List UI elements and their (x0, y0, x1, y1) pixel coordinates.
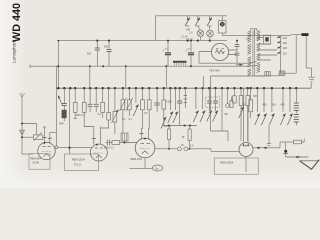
switch arrow x175.4 (173, 88, 178, 123)
tube V2 label box (65, 154, 99, 171)
switch arrow x163.5 (161, 117, 166, 129)
tube V2 grid stub right (100, 127, 102, 145)
ground symbol top right (308, 68, 315, 82)
capacitor C6 x157 (155, 88, 160, 112)
voltage selector box (263, 35, 270, 44)
barretter tube Ur (211, 43, 228, 60)
capacitor C5 x96 (94, 88, 99, 112)
power transformer T1 primary winding (248, 31, 251, 76)
resistor R2 x84 (82, 88, 94, 126)
wire V4 to output (253, 147, 280, 150)
scale lamp box (219, 16, 226, 36)
switch arrow x264 (261, 88, 266, 125)
transformer top leads (251, 29, 257, 31)
wire vline x210.5 (210, 76, 212, 88)
switch S2 in top box (195, 16, 200, 26)
dots on contact rail (168, 125, 191, 127)
svg-text:75 1,0: 75 1,0 (74, 163, 82, 167)
switch arrow x279 (280, 88, 285, 125)
switch arrow x170.5 (168, 88, 173, 123)
svg-text:450: 450 (253, 95, 258, 98)
svg-text:220: 220 (283, 36, 288, 40)
mains plug (302, 33, 309, 36)
selector pivot line (280, 37, 282, 74)
small rect x232 (230, 97, 233, 108)
barretter bypass caps (235, 40, 240, 64)
switch arrow x287 (287, 88, 292, 125)
wire y131 (211, 131, 229, 141)
wire vline x166 heater-bus (165, 66, 167, 88)
wire top rail y16 (156, 15, 228, 17)
wire chassis rail y40.6 (58, 40, 227, 42)
jack J2 (184, 147, 188, 151)
cap stack x297.5 (294, 115, 299, 126)
loudspeaker (300, 160, 320, 170)
wire y76 left (211, 75, 265, 77)
capacitor C9 x219.5 (213, 88, 218, 121)
field coil resistor (280, 139, 304, 144)
tube V3 grid stubs (140, 129, 149, 139)
earth tick bottom left (22, 153, 33, 155)
cap stack x292 (294, 88, 299, 113)
tube V1 REN904 (38, 142, 55, 160)
tube V2 REN1104 (90, 144, 107, 161)
svg-text:500: 500 (104, 46, 109, 49)
pickup jack circle (226, 88, 230, 107)
wire bus right end up (310, 83, 312, 89)
svg-text:450: 450 (272, 104, 277, 107)
switch arrow x244 (239, 107, 244, 119)
terminal circle right of tube1 (55, 146, 58, 149)
wire x222 bus to y131 (221, 88, 223, 131)
wire jacks to rectifier (188, 149, 239, 152)
resistor R6 x122.9 with arrow (120, 88, 127, 133)
heater terminal tick (29, 65, 31, 69)
spark gap triangle (20, 130, 25, 135)
wire riser x280 (279, 142, 281, 148)
wire speaker drop (285, 142, 287, 157)
dial lamp La1 (197, 26, 204, 41)
resistor x234.4 (233, 88, 237, 103)
antenna lead (21, 98, 23, 155)
junction dots on main bus (57, 87, 297, 89)
resistor R9 x149.2 (147, 88, 151, 128)
cord drop to primary (254, 29, 256, 36)
junction dots on heater rail (57, 65, 167, 67)
svg-text:RGN 1054: RGN 1054 (220, 160, 234, 164)
resistor R3 x102.7 (101, 88, 105, 118)
blocking cap C1 under rail x97 (87, 41, 100, 67)
wire to tube2 grid (58, 147, 92, 149)
wire mains to transformer (279, 72, 296, 74)
heater series cap x191 (188, 40, 194, 68)
trimmer swoosh right (186, 49, 191, 52)
svg-text:450: 450 (281, 104, 286, 107)
switch arrow x258 (255, 88, 260, 125)
svg-text:450: 450 (263, 104, 268, 107)
heater arrow (236, 64, 243, 66)
svg-text:5000 0,1: 5000 0,1 (104, 147, 114, 150)
potentiometer R5 x115 (112, 88, 119, 134)
blocking cap C2 under rail x109 (104, 41, 112, 67)
node antenna tap (22, 124, 37, 135)
tube V3 RES164 (135, 138, 155, 158)
jack J1 (178, 147, 182, 151)
antenna symbol (19, 93, 24, 98)
wire x211 bus to y131 (210, 88, 212, 131)
wire heater rail y66 (30, 65, 250, 67)
wire vline x69.5 (69, 88, 71, 154)
electrolytic C3 below bus x64 (58, 88, 67, 125)
switch arrow x272 (269, 88, 274, 125)
svg-text:Do: Do (155, 166, 159, 170)
tube V2 grid stub left (92, 127, 96, 145)
mains drop wire left (295, 35, 297, 73)
junction blob (284, 150, 287, 153)
wire to speaker (286, 156, 309, 158)
wire under V4 (245, 157, 247, 173)
tapped element x185 (184, 88, 187, 108)
capacitor C8 x213.5 (207, 88, 212, 121)
resistor R7 x129.3 with arrow (126, 88, 133, 116)
switch arrow x202.6 (200, 88, 205, 122)
antenna coupling resistor (21, 132, 43, 140)
dial lamp La2 (207, 26, 214, 41)
dashed block outline (206, 97, 220, 108)
resistor R1 x75 (73, 88, 77, 118)
capacitor C4 x90 (88, 88, 93, 112)
speaker jack drop x269 (267, 126, 271, 146)
wire vline x56 heater to tube1 (55, 66, 57, 146)
tube V4 label box (214, 158, 258, 174)
barretter feed wire (199, 52, 211, 64)
mains connector element (279, 71, 285, 76)
trimmer cap heater left (163, 40, 172, 67)
labels 450 row (243, 95, 285, 107)
svg-text:1,0: 1,0 (189, 31, 193, 35)
labels mid row (98, 101, 229, 122)
resistor R4 x108.6 (101, 88, 111, 128)
svg-text:4MF: 4MF (59, 123, 64, 126)
transformer core (253, 31, 255, 77)
resistor R8 x142.5 (141, 88, 145, 128)
switch S1 in top box (185, 16, 190, 26)
wire vline x155 (155, 16, 157, 41)
voltage labels (283, 36, 288, 56)
resistor R10 x251 (249, 88, 253, 118)
transformer bottom lead (257, 75, 279, 77)
svg-text:MF: MF (225, 113, 229, 116)
grid resistor tube3 (104, 140, 137, 149)
heater leads into transformer (250, 62, 257, 67)
filter capacitor on y76 (265, 72, 270, 76)
svg-text:110: 110 (283, 51, 288, 55)
switch S3 in top box (207, 16, 212, 26)
svg-text:750 40V: 750 40V (209, 68, 220, 72)
svg-text:REN 1104: REN 1104 (72, 158, 85, 162)
svg-text:WD 440: WD 440 (11, 3, 23, 42)
mains cord wire (222, 35, 301, 36)
svg-text:RES 164: RES 164 (131, 157, 143, 161)
secondary taps (258, 38, 277, 61)
svg-text:1,5 nF: 1,5 nF (186, 38, 193, 41)
wire vline x126 heater-bus (125, 66, 127, 88)
svg-text:5000: 5000 (167, 101, 173, 104)
paper background (0, 0, 320, 188)
barretter right leads (229, 50, 237, 55)
coil box mid (121, 133, 128, 144)
svg-text:90 95: 90 95 (33, 161, 40, 165)
grid resistor x169 (168, 126, 171, 150)
wire vline x58 rail to bus (57, 41, 59, 89)
rectifier V4 anode leads (244, 88, 249, 143)
svg-text:150: 150 (283, 41, 288, 45)
component x164 (162, 88, 171, 126)
choke Do (130, 158, 163, 171)
wire vline x203 (202, 76, 204, 88)
tube V4 RGN1054 (239, 143, 253, 157)
wire vline x90 heater-bus (89, 66, 91, 88)
wire heater return y63 (199, 62, 250, 64)
wire main bus y88 (56, 87, 311, 89)
switch arrow x136 (133, 88, 138, 116)
svg-text:125: 125 (283, 46, 288, 50)
power transformer T1 secondary winding (257, 31, 260, 73)
resistor x241 (239, 88, 243, 141)
coupling cap tube2 right (106, 140, 112, 146)
contact rail y125.5 (164, 125, 198, 127)
grid resistor x189.5 (188, 126, 191, 150)
hum balance pot on heater (173, 61, 187, 66)
tube V1 label box (29, 154, 50, 169)
svg-text:500: 500 (87, 53, 92, 56)
tube V1 grid stub left (43, 127, 47, 143)
resistor x247.7 (246, 88, 250, 141)
svg-text:REN 904: REN 904 (30, 156, 41, 160)
wire y68 right (306, 67, 311, 69)
tube V1 grid stub right (48, 132, 57, 143)
svg-text:3,0: 3,0 (190, 145, 194, 148)
output line with jacks (155, 148, 178, 150)
mains drop wire right (305, 36, 307, 68)
capacitor C7 x179.7 (177, 88, 182, 126)
selector contact arrows (277, 36, 282, 54)
junction dots on chassis rail (57, 40, 210, 42)
svg-text:500 0,1: 500 0,1 (76, 114, 85, 117)
switch arrow x196 (193, 88, 198, 122)
svg-text:Lumophon: Lumophon (12, 41, 17, 63)
